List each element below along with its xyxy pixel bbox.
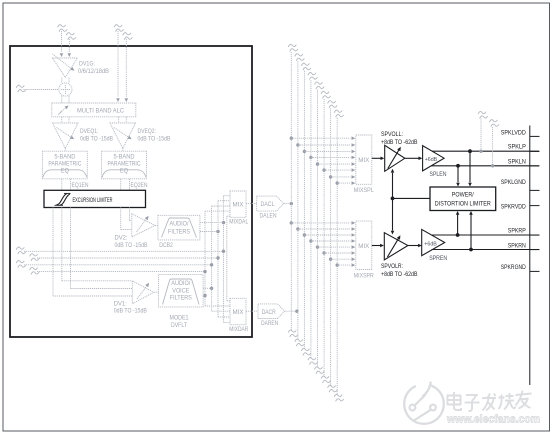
wire center bus line 7 <box>330 108 332 386</box>
amp DV1 <box>132 281 154 304</box>
node SPKRP junction <box>456 233 460 237</box>
pin label SPKRP <box>508 228 526 235</box>
label DV1 <box>114 300 147 314</box>
wire DV1G to summer <box>62 78 69 84</box>
wire input left into DV1G <box>60 31 64 57</box>
node SPKRN junction <box>469 248 473 252</box>
svg-text:DV2:: DV2: <box>115 235 128 242</box>
wire mix feed V4 <box>205 211 230 306</box>
svg-text:MIX: MIX <box>358 157 369 164</box>
break symbol left summer input <box>16 85 26 92</box>
wire mix feed V5 <box>227 216 230 301</box>
wire SPKRP to limiter <box>456 211 460 235</box>
wire DVFLT out1 <box>203 287 212 289</box>
node DACL bus junction <box>290 202 293 205</box>
node DACR bus junction <box>295 310 298 313</box>
wire VDD boot b <box>491 127 494 168</box>
label DVEQ2 <box>138 128 171 143</box>
label SPLEN <box>430 171 447 178</box>
svg-text:0dB TO -15dB: 0dB TO -15dB <box>115 242 148 249</box>
wire limiter out to DV1 low <box>53 208 132 297</box>
wire SPKRN line <box>432 249 540 251</box>
node SPKLN junction <box>456 164 460 168</box>
amp DVEQ2 <box>110 123 136 149</box>
amp DVEQ1 <box>53 123 79 149</box>
wire SPKLN to limiter <box>456 166 460 187</box>
break symbol SPKLVDD boot a <box>478 111 488 118</box>
dac DACL <box>257 196 284 211</box>
label DAREN <box>261 320 278 327</box>
input break symbols above DV1G <box>58 25 76 40</box>
wire SPVOLR to SPREN <box>408 244 422 248</box>
break symbols center bus bottom <box>288 330 343 401</box>
wire EQ1a to DV1 top <box>62 208 132 281</box>
amp DV2 <box>132 214 155 237</box>
label SPREN <box>429 255 447 262</box>
label DVEQ1 <box>80 128 113 143</box>
svg-text:SPVOLL:: SPVOLL: <box>381 131 403 138</box>
wire center bus line 5 <box>317 90 319 368</box>
svg-text:MULTI BAND ALC: MULTI BAND ALC <box>77 107 124 114</box>
chip boundary box <box>10 46 252 337</box>
label MIXDAL <box>229 218 248 225</box>
svg-text:SPLEN: SPLEN <box>430 171 447 178</box>
amp SPREN <box>422 229 445 255</box>
wire SPKLN line <box>431 165 539 167</box>
wire center bus line 4 <box>310 80 312 358</box>
box POWER DISTORTION LIMITER <box>430 187 496 211</box>
wire pin column <box>529 126 531 386</box>
pin label SPKLGND <box>501 179 526 186</box>
wire mix feed V2 <box>218 201 230 317</box>
label MIXDAR <box>229 326 248 333</box>
svg-text:0dB TO -15dB: 0dB TO -15dB <box>114 308 147 315</box>
wire SPKRN to limiter <box>469 211 473 250</box>
label MIX (SPL) <box>358 157 369 164</box>
wire input right into DV1G <box>68 39 72 57</box>
svg-text:SPKRP: SPKRP <box>508 228 526 235</box>
svg-text:DALEN: DALEN <box>260 213 277 220</box>
wire input right into ALC <box>125 39 129 102</box>
label MIX (DAL) <box>233 202 244 209</box>
svg-text:FILTERS: FILTERS <box>170 295 192 302</box>
svg-text:SPKLN: SPKLN <box>508 159 526 166</box>
break symbol SPKLVDD boot b <box>489 120 499 127</box>
box 5-BAND PARAMETRIC EQ2 <box>102 151 147 179</box>
wire mix feed V3 <box>212 206 230 311</box>
pin stubs <box>530 136 540 271</box>
wire DACL to bus <box>284 203 292 205</box>
dac DACR <box>258 304 285 319</box>
svg-text:DV1:: DV1: <box>114 300 127 307</box>
box 5-BAND PARAMETRIC EQ1 <box>42 151 87 179</box>
node V3 taps <box>210 263 213 290</box>
svg-text:DV1G:: DV1G: <box>79 61 95 68</box>
wire mix feed V1 <box>224 196 231 323</box>
box MULTI BAND ALC <box>52 103 136 117</box>
wire center bus line 6 <box>323 99 325 377</box>
wire input left into ALC <box>116 31 120 102</box>
wire EQ2a to DV2 upper <box>130 208 132 221</box>
wire SPVOLL to SPLEN <box>405 157 423 161</box>
svg-text:SPKLP: SPKLP <box>508 143 526 150</box>
svg-text:+6dB: +6dB <box>424 242 437 248</box>
svg-text:DVFLT: DVFLT <box>171 322 187 329</box>
amp SPVOLR <box>384 233 408 260</box>
wire center bus line 8 <box>336 118 338 396</box>
svg-text:www.elecfans.com: www.elecfans.com <box>446 414 540 426</box>
wires bus taps to MIXSPL <box>290 136 356 185</box>
box AUDIO VOICE FILTERS DVFLT <box>159 275 204 307</box>
label MIXSPR <box>354 273 374 280</box>
label SPVOLR <box>381 263 418 278</box>
svg-text:MIXSPR: MIXSPR <box>354 273 374 280</box>
svg-text:PARAMETRIC: PARAMETRIC <box>48 160 81 167</box>
wire VDD boot a <box>479 119 482 153</box>
wire DVEQ1 to EQ1 <box>64 149 66 152</box>
wire MIXDAL to DACL <box>246 203 257 205</box>
svg-text:DVEQ2:: DVEQ2: <box>138 128 157 135</box>
label EQ2 text <box>108 153 141 174</box>
svg-text:5-BAND: 5-BAND <box>54 153 75 160</box>
label +6dB (L) <box>425 157 438 163</box>
label AUDIO FILTERS <box>168 221 190 236</box>
svg-text:+8dB TO -62dB: +8dB TO -62dB <box>381 271 418 278</box>
svg-text:0/6/12/18dB: 0/6/12/18dB <box>78 68 109 75</box>
label DV1G <box>78 61 109 75</box>
wire EQ2 outputs down <box>121 179 130 190</box>
label MIX (SPR) <box>358 243 369 250</box>
wire DCB2 out2 <box>200 231 218 233</box>
wire SPKLP to limiter <box>468 151 472 186</box>
break symbols left bus inputs <box>16 247 39 274</box>
wire left bus input 2 <box>37 257 218 259</box>
wire left bus input 1 <box>24 250 224 252</box>
wires bus taps to MIXSPR <box>290 221 356 267</box>
label DALEN <box>260 213 277 220</box>
svg-text:SPKLGND: SPKLGND <box>501 179 526 186</box>
wire center bus line 1 <box>290 52 292 331</box>
amp SPVOLL <box>385 145 405 171</box>
wire DV1 to DVFLT <box>154 291 159 293</box>
svg-text:DVEQ1:: DVEQ1: <box>80 128 99 135</box>
svg-text:0dB TO -15dB: 0dB TO -15dB <box>138 135 171 142</box>
wire SPKRP line <box>432 234 540 236</box>
svg-text:MIXSPL: MIXSPL <box>354 187 374 194</box>
svg-text:DCB2: DCB2 <box>159 242 173 249</box>
wire left input to summer <box>24 89 59 91</box>
svg-text:MIXDAL: MIXDAL <box>229 218 248 225</box>
wire left bus input 3 <box>24 264 212 266</box>
label MIX (DAR) <box>233 309 244 316</box>
wire EQ1b to DV1 mid <box>71 208 133 289</box>
wire center bus line 3 <box>303 71 305 350</box>
pin label SPKRGND <box>501 264 526 271</box>
label EXCURSION LIMITER <box>73 197 113 204</box>
svg-text:EQ: EQ <box>61 167 69 174</box>
svg-text:EXCURSION LIMITER: EXCURSION LIMITER <box>73 197 113 204</box>
box MIX SPR <box>356 221 372 269</box>
svg-text:FILTERS: FILTERS <box>168 229 190 236</box>
svg-text:EQ: EQ <box>120 167 128 174</box>
label +6dB (R) <box>424 242 437 248</box>
amp SPLEN <box>423 146 445 171</box>
label EQ1EN <box>72 182 89 189</box>
watermark url text <box>446 414 540 426</box>
pin label SPKLN <box>508 159 526 166</box>
wire DV2 to DCB2 <box>155 224 158 226</box>
svg-text:AUDIO/: AUDIO/ <box>171 280 190 287</box>
wire SPKLP line <box>432 150 539 152</box>
wire DVEQ2 to EQ2 <box>122 149 124 152</box>
label MIXSPL <box>354 187 374 194</box>
wire summer to ALC <box>62 96 69 103</box>
svg-text:SPKRGND: SPKRGND <box>501 264 526 271</box>
pin label SPKLVDD <box>501 130 526 137</box>
svg-text:VOICE: VOICE <box>172 287 189 294</box>
svg-text:MIX: MIX <box>358 243 369 250</box>
wire DCB2 out1 <box>200 222 224 224</box>
svg-text:MODE1: MODE1 <box>170 315 189 322</box>
svg-text:MIX: MIX <box>233 202 244 209</box>
svg-text:5-BAND: 5-BAND <box>114 153 135 160</box>
label DCB2 <box>159 242 173 249</box>
watermark logo circle <box>404 382 444 424</box>
svg-text:0dB TO -15dB: 0dB TO -15dB <box>80 135 113 142</box>
svg-text:+8dB TO -62dB: +8dB TO -62dB <box>381 139 418 146</box>
node SPKLP junction <box>468 149 472 153</box>
svg-text:POWER/: POWER/ <box>452 192 474 199</box>
label SPVOLL <box>381 131 418 146</box>
label AUDIO VOICE FILTERS <box>170 280 192 302</box>
svg-text:MIX: MIX <box>233 309 244 316</box>
wire ALC to DVEQ1 <box>62 117 69 123</box>
svg-text:PARAMETRIC: PARAMETRIC <box>108 160 141 167</box>
wire MIXSPL to SPVOLL <box>372 157 385 161</box>
input break symbols above ALC <box>114 25 132 40</box>
svg-text:DAREN: DAREN <box>261 320 278 327</box>
wire EQ2b to DV2 lower <box>121 208 132 230</box>
box MIX DAR <box>230 298 246 324</box>
svg-text:DISTORTION LIMITER: DISTORTION LIMITER <box>435 200 491 207</box>
summer node <box>59 83 72 96</box>
svg-text:SPKRN: SPKRN <box>508 243 526 250</box>
wire ALC to DVEQ2 <box>119 117 127 123</box>
wire DVFLT out2 <box>203 295 205 297</box>
wire DACR to bus <box>285 310 297 312</box>
break symbols center bus top <box>288 44 343 117</box>
label MULTI BAND ALC <box>77 107 124 114</box>
wire left bus input 4 <box>37 271 205 273</box>
svg-text:SPKRVDD: SPKRVDD <box>501 204 526 211</box>
pin label SPKLP <box>508 143 526 150</box>
svg-text:DACL: DACL <box>261 201 275 208</box>
svg-text:SPKLVDD: SPKLVDD <box>501 130 526 137</box>
node V2 taps <box>216 230 219 260</box>
wire MIXDAR to DACR <box>246 310 258 312</box>
node V4 taps <box>203 270 206 297</box>
box AUDIO FILTERS DCB2 <box>158 215 200 240</box>
box MIX DAL <box>230 191 246 217</box>
wire MIXSPR to SPVOLR <box>372 244 384 248</box>
svg-text:+6dB: +6dB <box>425 157 438 163</box>
box MIX SPL <box>356 135 372 184</box>
pin label SPKRVDD <box>501 204 526 211</box>
node V1 taps <box>222 221 225 253</box>
box EXCURSION LIMITER <box>44 190 146 207</box>
wire EQ1 outputs down <box>62 179 71 190</box>
pin label SPKRN <box>508 243 526 250</box>
watermark CJK glyphs <box>448 391 532 412</box>
svg-text:EQ2EN: EQ2EN <box>131 182 148 189</box>
label POWER DISTORTION LIMITER <box>435 192 491 208</box>
svg-text:AUDIO/: AUDIO/ <box>170 221 189 228</box>
svg-text:EQ1EN: EQ1EN <box>72 182 89 189</box>
svg-text:SPREN: SPREN <box>429 255 447 262</box>
label DV2 <box>115 235 148 249</box>
label EQ2EN <box>131 182 148 189</box>
wire center bus line 2 <box>297 61 299 340</box>
svg-text:MIXDAR: MIXDAR <box>229 326 248 333</box>
svg-text:DACR: DACR <box>262 309 276 316</box>
label EQ1 text <box>48 153 81 174</box>
svg-text:SPVOLR:: SPVOLR: <box>381 263 403 270</box>
label MODE1 DVFLT <box>170 315 189 329</box>
amp DV1G <box>53 54 78 78</box>
wire limiter to volume amps <box>391 169 430 235</box>
